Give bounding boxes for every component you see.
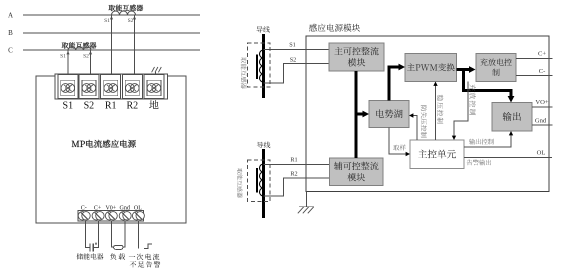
svg-text:A: A — [8, 12, 13, 20]
svg-text:R1: R1 — [105, 101, 117, 112]
control line 输出控制 (主控单元 to 输出) — [464, 131, 513, 147]
output terminal V0+ — [105, 205, 117, 220]
svg-text:B: B — [8, 29, 13, 37]
block 主PWM变换 — [405, 54, 457, 82]
svg-text:S2: S2 — [128, 18, 134, 24]
block 充放电控制 — [476, 54, 516, 82]
alarm step waveform symbol — [129, 244, 161, 268]
block 电势湖 — [369, 101, 409, 128]
primary conductor 导线 (top) — [256, 26, 270, 98]
output line Gnd — [532, 118, 553, 126]
phase line B — [8, 29, 200, 37]
svg-text:S1: S1 — [104, 18, 110, 24]
svg-text:Gnd: Gnd — [120, 205, 130, 211]
block 输出 — [492, 103, 532, 132]
svg-text:C-: C- — [539, 68, 546, 75]
aux pickup CT (dashed box with coil and core) — [237, 160, 270, 202]
sampling line 取样 (电势湖 to 主控单元) — [389, 128, 410, 157]
svg-text:OL: OL — [134, 205, 142, 211]
wire OL — [137, 221, 139, 248]
svg-text:S2: S2 — [83, 54, 89, 60]
svg-text:Gnd: Gnd — [535, 118, 547, 125]
induction power module outer box (感应电源模块) — [306, 24, 549, 192]
control line 稳压控制 (主控单元 to 主PWM变换) — [433, 82, 443, 141]
MP induction power supply box (MP电流感应电源) — [36, 76, 186, 223]
wire C- to storage capacitor — [86, 221, 90, 247]
svg-text:OL: OL — [537, 150, 546, 157]
aux conductor 导线 (bottom) — [257, 142, 271, 218]
terminal R1 — [101, 75, 121, 112]
bus: rectifier outputs common node (main to aux) — [355, 71, 358, 158]
svg-text:R1: R1 — [290, 157, 297, 164]
wire R2 — [264, 171, 330, 197]
phase line A — [8, 12, 200, 20]
svg-text:S2: S2 — [290, 57, 297, 64]
alarm line 告警输出 to OL — [464, 150, 552, 166]
block 辅可控整流模块 — [330, 158, 384, 186]
output terminal C- — [78, 205, 90, 220]
bus: 主PWM变换 to 充放电控制 — [457, 66, 476, 73]
block 主控单元 — [410, 140, 464, 169]
wire V0+ to load — [112, 221, 114, 247]
svg-text:VO+: VO+ — [535, 99, 549, 106]
earth ground symbol — [298, 192, 314, 214]
output line VO+ — [532, 99, 553, 107]
svg-text:V0+: V0+ — [105, 205, 116, 211]
wire S2 — [264, 57, 330, 84]
bus: branch down to 输出 — [464, 70, 515, 103]
control line 防失压控制 (主控单元 to 电势湖) — [409, 106, 427, 141]
svg-text:S1: S1 — [60, 54, 66, 60]
wire C+ to storage capacitor — [93, 221, 98, 247]
load (负载) — [110, 245, 125, 259]
svg-text:C+: C+ — [94, 205, 102, 211]
terminal S2 — [79, 75, 99, 112]
output terminal OL — [132, 205, 144, 220]
svg-text:C+: C+ — [538, 51, 546, 58]
chassis ground symbol above 地 terminal — [152, 67, 162, 75]
wire R1 — [264, 157, 330, 165]
output line C- — [516, 68, 553, 76]
svg-text:C-: C- — [81, 205, 87, 211]
svg-text:S1: S1 — [63, 101, 74, 112]
terminal 地 — [144, 75, 164, 109]
bus arrow into 电势湖 left — [356, 111, 369, 118]
terminal R2 — [122, 75, 142, 112]
current transformer CT2 on phase C (label 取能互感器) — [60, 42, 96, 74]
output terminal C+ — [92, 205, 104, 220]
input terminal strip — [55, 74, 168, 99]
phase line C — [8, 47, 200, 55]
output terminal Gnd — [119, 205, 131, 220]
svg-text:C: C — [8, 47, 13, 55]
terminal S1 — [58, 75, 78, 112]
main pickup CT (dashed box with coil and core) — [241, 43, 270, 89]
svg-text:R2: R2 — [126, 101, 138, 112]
current transformer CT1 on phase A (label 取能互感器) — [104, 5, 143, 75]
feedback line 充放控制 (充放电控制 to 主控单元) — [452, 82, 476, 141]
output terminal strip — [78, 211, 144, 222]
wire Gnd to load — [123, 221, 125, 247]
svg-text:S1: S1 — [289, 42, 296, 49]
bus: 电势湖 to 主PWM变换 — [389, 64, 405, 101]
storage capacitor (储能电器) — [77, 243, 104, 260]
svg-text:S2: S2 — [84, 101, 95, 112]
output line C+ — [516, 51, 553, 59]
block 主可控整流模块 — [329, 43, 384, 71]
wire S1 — [264, 42, 330, 50]
svg-text:R2: R2 — [290, 171, 297, 178]
